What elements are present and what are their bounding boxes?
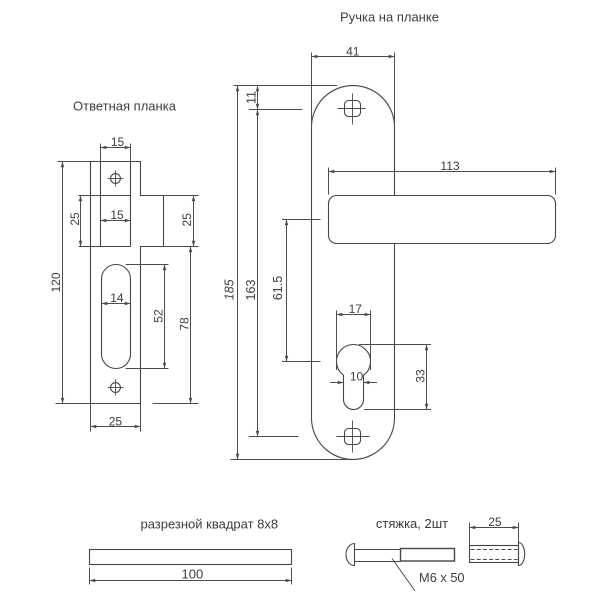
- dimension 17: [337, 314, 371, 316]
- bolt shank top edge: [355, 549, 401, 551]
- svg-text:185: 185: [223, 279, 237, 300]
- leader line M6 x 50: [392, 559, 415, 592]
- dimension 15 inner: [101, 220, 131, 222]
- svg-text:25: 25: [68, 212, 82, 226]
- dimension 113 extension lines: [328, 168, 330, 195]
- svg-text:стяжка, 2шт: стяжка, 2шт: [376, 516, 448, 531]
- dimension 25 sleeve extension lines: [469, 523, 471, 546]
- svg-text:14: 14: [110, 291, 124, 305]
- top square spindle hole: [345, 101, 361, 117]
- centerline top hole: [249, 109, 303, 111]
- dimension 185: [237, 86, 239, 460]
- dimension 25 left: [80, 196, 82, 247]
- svg-text:15: 15: [110, 208, 124, 222]
- dimension 61.5: [286, 220, 288, 362]
- dimension 10 right leg: [364, 382, 378, 384]
- svg-text:25: 25: [180, 213, 194, 227]
- svg-text:113: 113: [440, 159, 459, 173]
- latch box right edge: [130, 162, 132, 247]
- sleeve nut internal thread bottom: [471, 559, 518, 561]
- bottom square spindle hole: [345, 429, 361, 445]
- centerline keyhole: [282, 361, 321, 363]
- dimension 120 extension lines: [58, 161, 91, 163]
- dimension 78: [190, 247, 192, 404]
- svg-text:25: 25: [488, 515, 502, 529]
- dimension 25 right extension lines: [164, 195, 199, 197]
- dimension 11: [257, 86, 259, 110]
- svg-text:10: 10: [350, 370, 364, 384]
- dimension 25 sleeve: [470, 527, 519, 529]
- svg-text:78: 78: [178, 317, 192, 331]
- svg-text:Ручка на планке: Ручка на планке: [340, 9, 439, 24]
- latch box left edge: [100, 162, 102, 247]
- svg-text:Ответная планка: Ответная планка: [73, 99, 177, 114]
- svg-text:61.5: 61.5: [271, 276, 285, 300]
- dimension 25 bottom extension lines: [90, 404, 92, 432]
- svg-text:52: 52: [151, 309, 165, 323]
- centerline plate bottom: [231, 459, 351, 461]
- dimension 100: [90, 580, 292, 582]
- dimension 41: [312, 56, 395, 58]
- deadbolt oval slot: [102, 265, 131, 369]
- sleeve nut internal thread top: [471, 549, 518, 551]
- svg-text:41: 41: [346, 44, 360, 58]
- euro cylinder keyhole: [336, 345, 370, 410]
- bolt dome head: [346, 544, 355, 566]
- dimension 14: [102, 303, 131, 305]
- dimension 52 extension lines: [126, 264, 169, 266]
- top square hole crosshair: [338, 108, 366, 110]
- svg-text:11: 11: [245, 91, 259, 104]
- dimension 100 extension lines: [89, 568, 91, 585]
- svg-text:17: 17: [349, 302, 363, 316]
- centerline handle: [282, 219, 321, 221]
- screw hole top: [111, 174, 121, 184]
- bolt threaded section: [401, 549, 455, 562]
- sleeve nut body: [470, 546, 519, 563]
- screw hole bottom: [111, 383, 121, 393]
- dimension 120: [62, 162, 64, 404]
- handle plate stadium outline: [312, 86, 395, 460]
- svg-text:M6 x 50: M6 x 50: [419, 570, 465, 585]
- bolt shank bottom edge: [355, 561, 401, 563]
- svg-text:33: 33: [414, 369, 428, 383]
- svg-text:120: 120: [49, 272, 63, 292]
- screw hole bottom crosshair: [108, 387, 124, 389]
- strike plate outline with right tab: [91, 162, 164, 404]
- centerline plate top: [234, 85, 338, 87]
- dimension 33 extension lines: [359, 344, 431, 346]
- svg-text:разрезной квадрат 8х8: разрезной квадрат 8х8: [140, 516, 278, 531]
- dimension 25 right: [193, 196, 195, 247]
- dimension 52: [164, 265, 166, 369]
- svg-text:25: 25: [109, 414, 123, 428]
- dimension 33: [426, 345, 428, 410]
- latch box top line: [79, 195, 131, 197]
- dimension 17 extension lines: [336, 311, 338, 371]
- centerline bottom hole: [249, 436, 299, 438]
- dimension 10 left leg: [330, 382, 344, 384]
- svg-text:15: 15: [111, 135, 125, 149]
- screw hole top crosshair: [108, 178, 124, 180]
- bottom square hole crosshair: [337, 436, 370, 438]
- svg-text:100: 100: [182, 566, 204, 581]
- square bar: [90, 550, 292, 565]
- dimension 15 top: [101, 147, 131, 149]
- dimension 78 bottom extension line: [153, 403, 199, 405]
- svg-text:163: 163: [244, 280, 258, 301]
- handle bar: [329, 196, 556, 244]
- dimension 15 top extension lines: [100, 144, 102, 162]
- dimension 25 bottom: [91, 426, 141, 428]
- latch box bottom line: [79, 246, 131, 248]
- dimension 41 extension lines: [311, 53, 313, 128]
- sleeve nut dome head: [519, 543, 525, 566]
- dimension 113: [329, 171, 556, 173]
- dimension 163: [257, 110, 259, 437]
